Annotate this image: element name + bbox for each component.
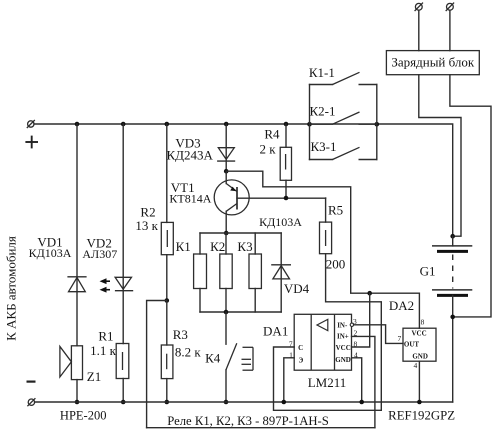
K4 aux contact symbol xyxy=(242,347,254,370)
wire switch group left rail xyxy=(309,85,311,160)
svg-text:VCC: VCC xyxy=(412,330,427,338)
svg-text:R1: R1 xyxy=(98,328,113,343)
node R4 base xyxy=(284,196,289,201)
relay coil K2 xyxy=(220,233,232,312)
svg-text:КТ814А: КТ814А xyxy=(169,191,211,205)
svg-text:IN-: IN- xyxy=(337,322,348,330)
wire pin3 IN- to DA2 OUT xyxy=(354,325,403,344)
svg-text:К2: К2 xyxy=(210,239,225,254)
wire R3 to bus xyxy=(166,379,168,402)
relay coil K3 xyxy=(249,233,261,312)
wire pin8 VCC up xyxy=(352,293,370,347)
terminal charger left xyxy=(415,3,423,11)
wire pin2 IN+ down xyxy=(352,336,375,427)
svg-text:IN+: IN+ xyxy=(337,333,349,341)
wire R4 branch top xyxy=(285,124,287,147)
wire: main positive rail with right drop to battery xyxy=(34,124,453,236)
diode VD1 xyxy=(68,277,86,292)
svg-text:КД103А: КД103А xyxy=(29,246,72,260)
svg-text:КД243А: КД243А xyxy=(166,148,213,163)
wire pin4 GND to bus xyxy=(352,358,362,402)
wire charger terminal leads xyxy=(418,10,420,50)
wire node to R3 xyxy=(166,301,168,346)
node main rail R4 xyxy=(284,122,289,127)
contact K2-1 xyxy=(310,112,377,124)
svg-text:GND: GND xyxy=(412,353,428,361)
svg-text:Зарядный блок: Зарядный блок xyxy=(391,54,475,69)
svg-text:8: 8 xyxy=(421,318,425,327)
node battery plus xyxy=(450,234,455,239)
wire VD1 branch top xyxy=(76,124,78,346)
minus sign xyxy=(27,381,36,383)
wire switch group right rail xyxy=(376,85,378,160)
terminal minus xyxy=(27,398,35,406)
svg-text:К АКБ автомобиля: К АКБ автомобиля xyxy=(4,236,19,341)
svg-text:4: 4 xyxy=(414,361,418,370)
node bus DA2 gnd xyxy=(417,400,422,405)
svg-text:Z1: Z1 xyxy=(87,369,101,384)
svg-text:R5: R5 xyxy=(328,203,343,218)
DA1 pin numbers xyxy=(289,317,358,359)
node main rail VD1 xyxy=(75,122,80,127)
diode VD3 xyxy=(218,148,235,161)
svg-text:VD4: VD4 xyxy=(284,281,310,296)
wire DA2 gnd to bus xyxy=(418,361,420,402)
plus sign xyxy=(25,136,38,149)
battery G1 xyxy=(432,236,472,402)
node VT1 collector relay bus xyxy=(224,231,229,236)
svg-text:Реле К1, К2, К3 - 897Р-1АН-S: Реле К1, К2, К3 - 897Р-1АН-S xyxy=(167,414,329,428)
relay coil K1 xyxy=(194,233,207,312)
wire relay top bus xyxy=(200,232,281,234)
svg-text:7: 7 xyxy=(397,334,401,343)
svg-text:R4: R4 xyxy=(264,127,280,142)
svg-text:К4: К4 xyxy=(205,351,221,366)
voltage reference DA2 REF192GPZ xyxy=(403,328,436,361)
wire IN+ bottom run xyxy=(147,427,375,429)
resistor R5 xyxy=(320,222,332,254)
DA2 inner labels xyxy=(404,330,428,361)
diode VD4 xyxy=(272,233,290,312)
wire R5 bottom to C net xyxy=(326,254,382,411)
node K4 top xyxy=(224,310,229,315)
contact K1-1 xyxy=(310,72,377,84)
contact K3-1 xyxy=(310,147,377,159)
svg-text:LM211: LM211 xyxy=(308,375,347,390)
resistor R4 xyxy=(280,147,291,180)
terminal charger right xyxy=(446,3,454,11)
svg-text:1.1 к: 1.1 к xyxy=(90,343,117,358)
resistor R2 xyxy=(161,222,173,254)
node main rail switch right xyxy=(375,122,380,127)
wire R2 branch top xyxy=(166,124,168,222)
node bus K4 xyxy=(224,400,229,405)
DA1 inner labels xyxy=(298,322,351,365)
svg-text:АЛ307: АЛ307 xyxy=(82,247,117,261)
wire bottom negative bus xyxy=(35,401,453,403)
node battery minus xyxy=(450,315,455,320)
node bus Z1 xyxy=(75,400,80,405)
svg-text:GND: GND xyxy=(335,356,351,364)
node bus DA1 emitter xyxy=(282,400,287,405)
svg-text:VCC: VCC xyxy=(336,344,351,352)
wire VT1 base net xyxy=(237,197,326,199)
svg-text:R3: R3 xyxy=(173,327,188,342)
svg-text:2 к: 2 к xyxy=(260,142,277,157)
op-amp DA1 LM211 xyxy=(294,314,353,370)
wire R4 bottom xyxy=(285,180,287,198)
switch K4 xyxy=(226,312,237,402)
svg-text:НРЕ-200: НРЕ-200 xyxy=(60,409,107,423)
svg-text:13 к: 13 к xyxy=(135,218,158,233)
node bus DA1 gnd xyxy=(359,400,364,405)
node main rail switch left xyxy=(307,122,312,127)
svg-text:200: 200 xyxy=(326,257,346,272)
svg-text:C: C xyxy=(298,344,303,352)
transistor VT1 xyxy=(214,171,249,233)
svg-text:DA1: DA1 xyxy=(263,323,288,338)
wire base to R5 xyxy=(325,198,327,222)
buzzer Z1 xyxy=(60,346,83,380)
terminal plus (to car battery) xyxy=(27,120,35,128)
node main rail R2 xyxy=(165,122,170,127)
svg-text:К2-1: К2-1 xyxy=(310,103,336,118)
svg-text:REF192GPZ: REF192GPZ xyxy=(388,408,455,422)
wire emitter VCC net xyxy=(226,171,419,328)
node VCC net DA1 xyxy=(367,291,372,296)
wire Z1 to bus xyxy=(76,380,78,402)
node VD3 emitter xyxy=(224,169,229,174)
svg-text:К1: К1 xyxy=(176,239,191,254)
resistor R3 xyxy=(161,345,173,379)
wire divider tap to IN+ xyxy=(147,301,167,428)
svg-text:OUT: OUT xyxy=(404,341,420,349)
node main rail VD3 xyxy=(224,122,229,127)
wire pin1 E to bus xyxy=(284,358,294,402)
wire pin7 C to R5 net xyxy=(274,347,382,410)
wire charger right output to battery minus xyxy=(450,75,491,317)
LED VD2 xyxy=(100,277,133,292)
wire charger left output to battery plus xyxy=(419,75,461,237)
svg-text:8.2 к: 8.2 к xyxy=(175,344,202,359)
svg-text:DA2: DA2 xyxy=(389,298,414,313)
node bus R3 xyxy=(165,400,170,405)
node main rail VD2 xyxy=(121,122,126,127)
svg-text:К1-1: К1-1 xyxy=(309,65,335,80)
svg-text:КД103А: КД103А xyxy=(259,215,302,229)
node R2 R3 divider xyxy=(165,298,170,303)
node bus R1 xyxy=(121,400,126,405)
wire R2 to node xyxy=(166,255,168,301)
wire VD3 branch top xyxy=(225,124,227,171)
svg-text:К3: К3 xyxy=(237,239,252,254)
resistor R1 xyxy=(116,344,129,379)
svg-text:Э: Э xyxy=(299,356,304,364)
DA2 pin numbers xyxy=(397,318,424,371)
wire relay bottom bus xyxy=(200,311,281,313)
svg-text:G1: G1 xyxy=(420,264,436,279)
charger box xyxy=(386,51,479,75)
wire VD2 branch top xyxy=(122,124,124,344)
svg-text:К3-1: К3-1 xyxy=(311,139,337,154)
wire R1 to bus xyxy=(122,379,124,403)
